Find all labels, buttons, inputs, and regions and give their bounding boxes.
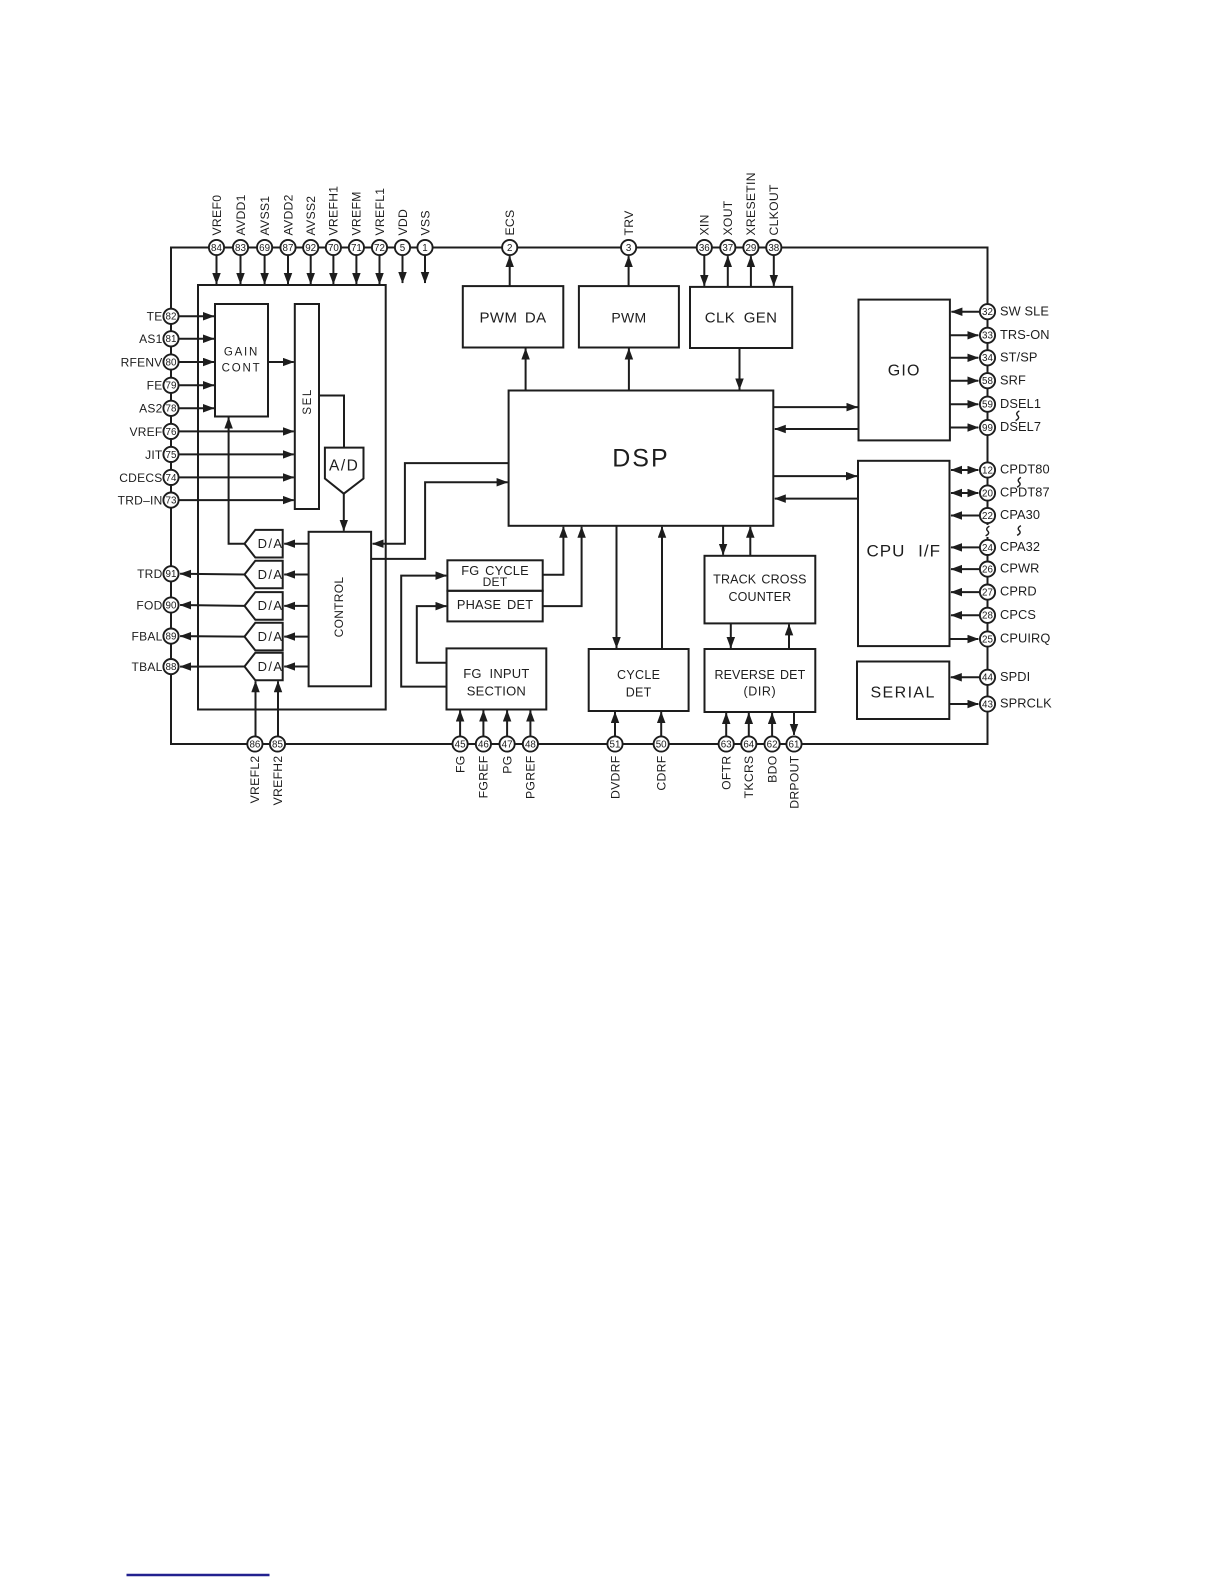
wire CONTROL to D/A 2 — [284, 574, 308, 576]
wire CONTROL to DSP — [371, 482, 508, 559]
svg-text:DRPOUT: DRPOUT — [787, 755, 801, 809]
svg-text:58: 58 — [982, 376, 993, 387]
svg-text:PGREF: PGREF — [524, 756, 538, 799]
pin 33 TRS-ON — [980, 328, 995, 343]
svg-text:76: 76 — [166, 427, 177, 438]
block CONTROL — [309, 532, 372, 687]
block SEL — [295, 304, 319, 509]
svg-text:20: 20 — [982, 488, 993, 499]
svg-text:TRD–IN: TRD–IN — [118, 494, 163, 508]
svg-text:CLK GEN: CLK GEN — [705, 310, 778, 327]
svg-text:CPA30: CPA30 — [1000, 507, 1040, 522]
wire DSP to TRACK CROSS COUNTER — [722, 526, 724, 555]
svg-text:SEL: SEL — [302, 388, 314, 415]
svg-text:91: 91 — [166, 569, 177, 580]
svg-text:71: 71 — [351, 243, 362, 254]
wire pin 87 AVDD2 into analog section — [287, 255, 289, 284]
wire pin 72 VREFL1 into analog section — [379, 255, 381, 284]
pin 22 CPA30 — [980, 508, 995, 523]
wire PWM DA to pin 2 ECS — [509, 256, 511, 286]
wire TRACK CROSS COUNTER to REVERSE DET — [730, 623, 732, 648]
wire pin 70 VREFH1 into analog section — [332, 255, 334, 284]
pin 5 VDD — [395, 240, 410, 255]
pin 62 BDO — [765, 736, 780, 751]
wire D/A 3 to pin 90 FOD — [180, 604, 244, 607]
wire pin 27 into CPU I/F — [951, 591, 980, 593]
wire FG INPUT SECTION to PHASE DET — [417, 606, 447, 663]
D/A converter 3 — [245, 592, 283, 620]
svg-text:5: 5 — [400, 243, 406, 254]
D/A converter 1 — [245, 530, 283, 558]
pin 3 TRV — [621, 240, 636, 255]
svg-text:69: 69 — [259, 243, 270, 254]
pin 81 AS1 — [163, 331, 178, 346]
svg-text:PHASE DET: PHASE DET — [457, 597, 533, 612]
svg-text:32: 32 — [982, 307, 993, 318]
svg-text:XOUT: XOUT — [721, 200, 735, 235]
svg-text:DSEL7: DSEL7 — [1000, 419, 1041, 434]
wire D/A 5 to pin 88 TBAL — [180, 666, 244, 668]
svg-text:TKCRS: TKCRS — [742, 756, 756, 799]
wire pin 63 into REVERSE DET — [725, 713, 727, 736]
wire pin 50 CDRF into CYCLE DET — [660, 712, 662, 736]
wire pin 74 CDECS into SEL — [179, 476, 294, 478]
wire pin 36 XIN into CLK GEN — [703, 255, 705, 286]
svg-text:SECTION: SECTION — [467, 684, 526, 699]
pin 50 CDRF — [654, 736, 669, 751]
svg-text:TRACK CROSS: TRACK CROSS — [713, 573, 806, 587]
svg-text:87: 87 — [283, 243, 294, 254]
wire SEL to A/D — [319, 396, 344, 448]
pin 82 TE — [163, 309, 178, 324]
svg-text:72: 72 — [374, 243, 385, 254]
wire pin 80 RFENV into GAIN CONT — [179, 361, 214, 363]
svg-text:47: 47 — [502, 739, 513, 750]
pin 27 CPRD — [980, 585, 995, 600]
blue footer line — [127, 1574, 270, 1576]
svg-text:CPCS: CPCS — [1000, 607, 1036, 622]
svg-text:TRD: TRD — [137, 567, 162, 581]
wire pin 26 into CPU I/F — [951, 568, 980, 570]
wire GIO to pin 33 — [950, 334, 979, 336]
range mark DSEL1~DSEL7 — [1016, 411, 1020, 421]
wire GIO to pin 59 — [950, 403, 979, 405]
wire CLK GEN to pin 37 XOUT — [727, 256, 729, 287]
svg-text:43: 43 — [982, 699, 993, 710]
pin 88 TBAL — [163, 659, 178, 674]
pin 74 CDECS — [163, 470, 178, 485]
range mark CPA30~CPA32 — [1017, 526, 1021, 536]
wire SERIAL to pin 43 SPRCLK — [949, 703, 978, 705]
svg-text:XRESETIN: XRESETIN — [744, 172, 758, 235]
block CPU I/F — [858, 461, 950, 646]
chip outer border — [171, 248, 988, 745]
wire CPU I/F to pin 20 bidirectional — [951, 492, 978, 494]
pin 43 SPRCLK — [980, 696, 995, 711]
svg-text:51: 51 — [610, 739, 621, 750]
block CYCLE DET — [589, 649, 689, 711]
wire pin 22 into CPU I/F — [951, 515, 980, 517]
pin 38 CLKOUT — [766, 240, 781, 255]
svg-text:CPA32: CPA32 — [1000, 539, 1040, 554]
svg-text:FG: FG — [453, 756, 467, 774]
svg-text:33: 33 — [982, 331, 993, 342]
svg-text:VREFL2: VREFL2 — [248, 756, 262, 804]
wire CONTROL to D/A 4 — [284, 636, 308, 638]
pin 90 FOD — [163, 597, 178, 612]
svg-text:92: 92 — [305, 243, 316, 254]
svg-text:CPU I/F: CPU I/F — [867, 542, 941, 561]
block TRACK CROSS COUNTER — [705, 556, 816, 624]
wire pin 92 AVSS2 into analog section — [310, 255, 312, 284]
pin 61 DRPOUT — [786, 736, 801, 751]
pin 59 DSEL1 — [980, 397, 995, 412]
svg-text:AVSS1: AVSS1 — [258, 196, 272, 236]
pin 64 TKCRS — [741, 736, 756, 751]
svg-text:88: 88 — [166, 662, 177, 673]
pin 63 OFTR — [719, 736, 734, 751]
svg-text:CPDT87: CPDT87 — [1000, 485, 1050, 500]
block DSP — [509, 391, 774, 526]
pin 83 AVDD1 — [233, 240, 248, 255]
svg-text:DSEL1: DSEL1 — [1000, 396, 1041, 411]
wire CONTROL to D/A 3 — [284, 605, 308, 607]
wire DSP to GIO — [773, 406, 857, 408]
pin 80 RFENV — [163, 354, 178, 369]
pin 25 CPUIRQ — [980, 631, 995, 646]
svg-text:22: 22 — [982, 511, 993, 522]
wire pin 73 TRD–IN into SEL — [179, 499, 294, 501]
wire pin 48 into FG INPUT SECTION — [529, 711, 531, 737]
svg-text:FE: FE — [147, 379, 163, 393]
pin 45 FG — [453, 736, 468, 751]
svg-text:BDO: BDO — [765, 756, 779, 783]
svg-text:80: 80 — [166, 357, 177, 368]
wire pin 84 VREF0 into analog section — [216, 255, 218, 284]
wire pin 45 into FG INPUT SECTION — [459, 711, 461, 737]
block PWM — [579, 286, 679, 347]
wire pin 69 AVSS1 into analog section — [264, 255, 266, 284]
svg-text:ECS: ECS — [503, 210, 517, 236]
svg-text:VDD: VDD — [396, 209, 410, 236]
svg-text:SPDI: SPDI — [1000, 669, 1030, 684]
svg-text:73: 73 — [166, 496, 177, 507]
pin 99 DSEL7 — [980, 420, 995, 435]
svg-text:SPRCLK: SPRCLK — [1000, 696, 1052, 711]
pin 32 SW SLE — [980, 304, 995, 319]
svg-text:JIT: JIT — [145, 448, 163, 462]
wire pin 75 JIT into SEL — [179, 453, 294, 455]
svg-text:VREF0: VREF0 — [210, 195, 224, 236]
wire DSP to CYCLE DET — [616, 526, 618, 648]
wire pin 86 VREFL2 into D/A 5 — [255, 681, 257, 736]
wire PHASE DET to DSP — [543, 527, 582, 606]
svg-text:XIN: XIN — [698, 214, 712, 235]
pin 92 AVSS2 — [303, 240, 318, 255]
wire pin 79 FE into GAIN CONT — [179, 384, 214, 386]
wire GIO to pin 34 — [950, 357, 979, 359]
svg-text:FOD: FOD — [136, 598, 162, 612]
wire pin 62 into REVERSE DET — [771, 713, 773, 736]
svg-text:VREFH1: VREFH1 — [327, 186, 341, 236]
svg-text:36: 36 — [699, 243, 710, 254]
pin 1 VSS — [417, 240, 432, 255]
wire D/A 2 to pin 91 TRD — [180, 573, 244, 576]
pin 24 CPA32 — [980, 540, 995, 555]
wire pin 32 SW SLE into GIO — [951, 311, 980, 313]
block GAIN CONT — [215, 304, 268, 417]
svg-text:46: 46 — [478, 739, 489, 750]
svg-text:CDRF: CDRF — [655, 756, 669, 791]
wire GIO to DSP — [775, 428, 859, 430]
wire CONTROL to D/A 1 — [284, 543, 308, 545]
pin 89 FBAL — [163, 629, 178, 644]
svg-text:PWM DA: PWM DA — [480, 310, 547, 327]
wire GIO to pin 99 — [950, 427, 979, 429]
pin 58 SRF — [980, 373, 995, 388]
pin 48 PGREF — [523, 736, 538, 751]
wire pin 28 into CPU I/F — [951, 614, 980, 616]
svg-text:27: 27 — [982, 588, 993, 599]
wire pin 71 VREFM into analog section — [355, 255, 357, 284]
svg-text:61: 61 — [789, 739, 800, 750]
svg-text:OFTR: OFTR — [720, 756, 734, 790]
svg-text:82: 82 — [166, 312, 177, 323]
svg-text:D/A: D/A — [258, 629, 284, 644]
svg-text:FBAL: FBAL — [131, 630, 162, 644]
block FG INPUT SECTION — [447, 648, 547, 709]
svg-text:CPDT80: CPDT80 — [1000, 462, 1050, 477]
svg-text:62: 62 — [767, 739, 778, 750]
svg-text:CYCLE: CYCLE — [617, 668, 660, 682]
block GIO — [859, 300, 950, 441]
wire CONTROL to D/A 5 — [284, 666, 308, 668]
svg-text:PG: PG — [500, 756, 514, 774]
wire REVERSE DET to TRACK CROSS COUNTER — [788, 624, 790, 649]
svg-text:1: 1 — [422, 243, 427, 254]
svg-text:VREF: VREF — [129, 425, 162, 439]
pin 20 CPDT87 — [980, 485, 995, 500]
svg-text:CPWR: CPWR — [1000, 561, 1040, 576]
pin 46 FGREF — [476, 736, 491, 751]
block FG CYCLE DET — [447, 560, 542, 591]
analog section box — [198, 285, 386, 710]
svg-text:28: 28 — [982, 611, 993, 622]
svg-text:AVDD1: AVDD1 — [234, 194, 248, 235]
wire REVERSE DET to pin 61 DRPOUT — [793, 712, 795, 735]
svg-text:CLKOUT: CLKOUT — [767, 184, 781, 235]
pin 73 TRD–IN — [163, 493, 178, 508]
svg-text:PWM: PWM — [611, 310, 646, 326]
svg-text:CONTROL: CONTROL — [332, 577, 346, 638]
wire pin 64 into REVERSE DET — [748, 713, 750, 736]
svg-text:DET: DET — [626, 686, 652, 700]
pin 29 XRESETIN — [743, 240, 758, 255]
pin 78 AS2 — [163, 401, 178, 416]
svg-text:AVSS2: AVSS2 — [304, 196, 318, 236]
D/A converter 2 — [245, 561, 283, 589]
wire CLK GEN to pin 29 XRESETIN — [750, 256, 752, 287]
block REVERSE DET (DIR) — [705, 649, 816, 712]
pin 47 PG — [500, 736, 515, 751]
D/A converter 5 — [245, 653, 283, 681]
svg-text:89: 89 — [166, 632, 177, 643]
wire pin 76 VREF into SEL — [179, 430, 294, 432]
pin 34 ST/SP — [980, 350, 995, 365]
svg-text:RFENV: RFENV — [121, 355, 163, 369]
svg-text:COUNTER: COUNTER — [728, 590, 791, 604]
wire CPU I/F to pin 12 bidirectional — [951, 469, 978, 471]
svg-text:D/A: D/A — [258, 598, 284, 613]
svg-text:63: 63 — [721, 739, 732, 750]
svg-text:26: 26 — [982, 565, 993, 576]
pin 72 VREFL1 — [372, 240, 387, 255]
svg-text:DVDRF: DVDRF — [608, 756, 622, 799]
wire FG CYCLE DET to DSP — [543, 527, 564, 575]
wire pin 1 VSS supply arrow — [424, 255, 426, 283]
svg-text:59: 59 — [982, 400, 993, 411]
svg-text:REVERSE DET: REVERSE DET — [714, 668, 805, 682]
svg-text:24: 24 — [982, 543, 993, 554]
svg-text:CDECS: CDECS — [119, 471, 162, 485]
svg-text:VREFH2: VREFH2 — [271, 756, 285, 806]
svg-text:DET: DET — [483, 575, 508, 589]
svg-text:81: 81 — [166, 334, 177, 345]
wire PWM to pin 3 TRV — [628, 256, 630, 286]
svg-text:86: 86 — [249, 739, 260, 750]
range mark CPDT80~CPDT87 — [1017, 477, 1021, 487]
svg-text:25: 25 — [982, 634, 993, 645]
wire D/A 4 to pin 89 FBAL — [180, 635, 244, 638]
svg-text:A/D: A/D — [329, 458, 359, 475]
svg-text:45: 45 — [455, 739, 466, 750]
svg-text:SW SLE: SW SLE — [1000, 303, 1049, 318]
pin 44 SPDI — [980, 670, 995, 685]
pin 28 CPCS — [980, 608, 995, 623]
block PWM DA — [463, 286, 564, 347]
svg-text:TE: TE — [147, 310, 163, 324]
svg-text:SRF: SRF — [1000, 372, 1026, 387]
wire A/D to CONTROL — [343, 494, 345, 531]
wire CLK GEN to DSP — [739, 348, 741, 390]
pin 79 FE — [163, 378, 178, 393]
svg-text:TRS-ON: TRS-ON — [1000, 327, 1050, 342]
pin 85 VREFH2 — [270, 736, 285, 751]
svg-text:99: 99 — [982, 423, 993, 434]
pin 75 JIT — [163, 447, 178, 462]
svg-text:48: 48 — [525, 739, 536, 750]
svg-text:SERIAL: SERIAL — [870, 685, 935, 702]
block PHASE DET — [447, 591, 542, 622]
svg-text:(DIR): (DIR) — [743, 685, 776, 699]
svg-text:50: 50 — [656, 739, 667, 750]
wire pin 82 TE into GAIN CONT — [179, 315, 214, 317]
A/D converter — [325, 448, 364, 494]
wire CPU I/F to pin 25 CPUIRQ — [950, 638, 979, 640]
pin 84 VREF0 — [209, 240, 224, 255]
pin 87 AVDD2 — [280, 240, 295, 255]
svg-text:VREFM: VREFM — [350, 191, 364, 235]
svg-text:38: 38 — [768, 243, 779, 254]
svg-text:12: 12 — [982, 465, 993, 476]
wire pin 83 AVDD1 into analog section — [240, 255, 242, 284]
wire DSP to PWM — [628, 349, 630, 391]
svg-text:FG INPUT: FG INPUT — [463, 666, 529, 681]
wire pin 81 AS1 into GAIN CONT — [179, 338, 214, 340]
svg-text:79: 79 — [166, 381, 177, 392]
pin 12 CPDT80 — [980, 462, 995, 477]
svg-text:FGREF: FGREF — [477, 756, 491, 799]
pin 86 VREFL2 — [247, 736, 262, 751]
svg-text:DSP: DSP — [612, 444, 669, 472]
wire GIO to pin 58 — [950, 380, 979, 382]
wire pin 5 VDD supply arrow — [402, 255, 404, 283]
wire pin 38 CLKOUT into CLK GEN — [773, 255, 775, 286]
D/A converter 4 — [245, 623, 283, 651]
svg-text:34: 34 — [982, 353, 993, 364]
svg-text:ST/SP: ST/SP — [1000, 349, 1037, 364]
pin column break between CPA30 and CPA32 — [983, 525, 993, 537]
svg-text:75: 75 — [166, 450, 177, 461]
wire DSP to CONTROL — [373, 463, 509, 544]
svg-text:CONT: CONT — [222, 362, 262, 374]
svg-text:TRV: TRV — [622, 210, 636, 236]
svg-text:37: 37 — [722, 243, 733, 254]
svg-text:29: 29 — [745, 243, 756, 254]
wire pin 51 DVDRF into CYCLE DET — [614, 712, 616, 736]
wire pin 24 into CPU I/F — [951, 546, 980, 548]
wire pin 44 SPDI into SERIAL — [951, 676, 980, 678]
wire DSP to PWM DA — [525, 349, 527, 391]
svg-text:TBAL: TBAL — [131, 660, 162, 674]
wire GAIN CONT to SEL — [268, 361, 294, 363]
pin 71 VREFM — [349, 240, 364, 255]
svg-text:AS2: AS2 — [139, 402, 163, 416]
svg-text:D/A: D/A — [258, 536, 284, 551]
svg-text:44: 44 — [982, 673, 993, 684]
pin 70 VREFH1 — [326, 240, 341, 255]
svg-text:GAIN: GAIN — [224, 347, 259, 359]
wire D/A 1 to GAIN CONT — [229, 418, 245, 544]
wire DSP to CPU I/F — [773, 475, 857, 477]
pin 2 ECS — [502, 240, 517, 255]
svg-text:84: 84 — [211, 243, 222, 254]
svg-text:D/A: D/A — [258, 567, 284, 582]
svg-text:CPRD: CPRD — [1000, 584, 1037, 599]
wire CYCLE DET to DSP — [661, 527, 663, 649]
wire pin 85 VREFH2 into D/A 5 — [277, 681, 279, 736]
svg-text:CPUIRQ: CPUIRQ — [1000, 631, 1050, 646]
pin 76 VREF — [163, 424, 178, 439]
pin 36 XIN — [697, 240, 712, 255]
svg-text:83: 83 — [235, 243, 246, 254]
svg-text:90: 90 — [166, 600, 177, 611]
svg-text:85: 85 — [272, 739, 283, 750]
block CLK GEN — [690, 287, 792, 348]
svg-text:3: 3 — [626, 243, 632, 254]
svg-text:VSS: VSS — [418, 210, 432, 235]
svg-text:64: 64 — [743, 739, 754, 750]
svg-text:AVDD2: AVDD2 — [281, 194, 295, 235]
wire pin 78 AS2 into GAIN CONT — [179, 407, 214, 409]
svg-text:78: 78 — [166, 404, 177, 415]
svg-text:GIO: GIO — [888, 362, 921, 379]
wire pin 47 into FG INPUT SECTION — [506, 711, 508, 737]
pin 91 TRD — [163, 566, 178, 581]
svg-text:74: 74 — [166, 473, 177, 484]
svg-text:AS1: AS1 — [139, 332, 163, 346]
pin 51 DVDRF — [607, 736, 622, 751]
